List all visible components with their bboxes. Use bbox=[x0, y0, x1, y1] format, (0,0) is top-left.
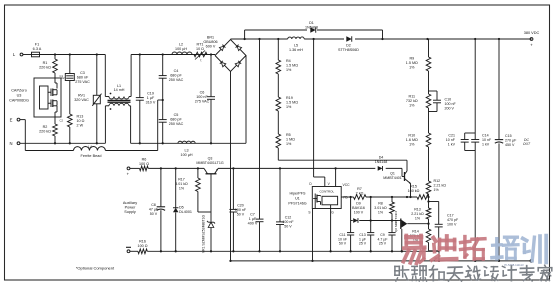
svg-text:C4: C4 bbox=[174, 69, 179, 73]
capacitor C8 47 uF 50 V bbox=[149, 168, 165, 251]
svg-text:160 kΩ: 160 kΩ bbox=[408, 189, 420, 193]
svg-text:D9: D9 bbox=[356, 202, 361, 206]
terminal output minus bbox=[530, 260, 533, 263]
svg-text:10 nF: 10 nF bbox=[446, 138, 456, 142]
svg-text:400 V: 400 V bbox=[248, 221, 258, 225]
svg-text:270 µF: 270 µF bbox=[505, 138, 517, 142]
diode D2 STTH8S06D bbox=[338, 36, 359, 52]
terminal L bbox=[13, 52, 23, 57]
svg-text:250 VAC: 250 VAC bbox=[169, 122, 184, 126]
svg-text:CAP006DG: CAP006DG bbox=[9, 99, 29, 103]
svg-text:R11: R11 bbox=[409, 95, 416, 99]
svg-text:R12: R12 bbox=[434, 179, 441, 183]
svg-text:100 µH: 100 µH bbox=[175, 47, 187, 51]
svg-text:Supply: Supply bbox=[124, 210, 136, 214]
svg-text:1.6 MΩ: 1.6 MΩ bbox=[406, 138, 418, 142]
terminal auxiliary minus bbox=[126, 247, 131, 252]
svg-text:Auxiliary: Auxiliary bbox=[123, 201, 137, 205]
resistor R10 1.6 MOhm bbox=[406, 108, 431, 181]
svg-text:D5: D5 bbox=[179, 206, 184, 210]
svg-text:C3: C3 bbox=[80, 71, 85, 75]
svg-text:50 V: 50 V bbox=[284, 224, 292, 228]
wire ferrite bead to Y capacitor midpoint bbox=[105, 99, 163, 151]
capacitor C12 100 nF 50 V bbox=[276, 168, 294, 251]
svg-text:PFS7146G: PFS7146G bbox=[288, 202, 306, 206]
svg-text:VR1 SZMMSZ5248BT1G: VR1 SZMMSZ5248BT1G bbox=[202, 215, 206, 254]
svg-text:1%: 1% bbox=[409, 65, 415, 69]
svg-text:C5: C5 bbox=[174, 113, 179, 117]
svg-text:R14: R14 bbox=[412, 230, 419, 234]
svg-text:2.21 kΩ: 2.21 kΩ bbox=[411, 212, 424, 216]
svg-text:X2: X2 bbox=[61, 76, 65, 80]
resistor R11 732 kOhm bbox=[406, 71, 431, 108]
svg-text:CAPZero: CAPZero bbox=[11, 89, 27, 93]
svg-text:200 V: 200 V bbox=[445, 106, 455, 110]
svg-text:100 V: 100 V bbox=[447, 222, 457, 226]
svg-text:R13: R13 bbox=[414, 208, 421, 212]
wire L line bbox=[40, 53, 216, 55]
svg-text:U1: U1 bbox=[295, 197, 300, 201]
CAPZero U3 CAP006DG bbox=[9, 74, 63, 123]
svg-text:t: t bbox=[201, 59, 202, 63]
svg-text:BR1: BR1 bbox=[207, 36, 214, 40]
capacitor C10 100 nF 200 V bbox=[429, 91, 457, 112]
svg-text:10 Ω: 10 Ω bbox=[77, 119, 85, 123]
terminal output plus 380 VDC bbox=[524, 31, 540, 48]
svg-text:R1: R1 bbox=[43, 61, 48, 65]
capacitor C17 470 pF 100 V bbox=[429, 202, 459, 252]
svg-text:R6: R6 bbox=[142, 158, 147, 162]
resistor R19 1.5 MOhm bbox=[276, 74, 298, 111]
capacitor C14 10 nF 1 kV bbox=[471, 39, 492, 262]
op-amp U1 HiperPFS PFS7146G controller bbox=[288, 182, 350, 215]
svg-text:680 pF: 680 pF bbox=[170, 117, 182, 121]
svg-text:STTH8S06D: STTH8S06D bbox=[338, 48, 359, 52]
resistor R6 100 Ohm bbox=[130, 158, 149, 171]
svg-text:14 mH: 14 mH bbox=[114, 88, 125, 92]
svg-text:1%: 1% bbox=[378, 210, 384, 214]
wire power return rail bbox=[231, 260, 532, 262]
svg-text:3.01 kΩ: 3.01 kΩ bbox=[175, 182, 188, 186]
svg-text:C20: C20 bbox=[237, 204, 244, 208]
diode D1 1N5408 bypass bbox=[245, 21, 383, 39]
svg-text:600 V: 600 V bbox=[206, 44, 216, 48]
svg-text:680 nF: 680 nF bbox=[77, 75, 89, 79]
wire signal ground rail bbox=[130, 250, 439, 252]
svg-text:DL4001: DL4001 bbox=[179, 210, 192, 214]
svg-text:1 µF: 1 µF bbox=[249, 217, 257, 221]
svg-text:L2: L2 bbox=[179, 43, 183, 47]
svg-text:VCC: VCC bbox=[343, 183, 351, 187]
svg-text:1N5408: 1N5408 bbox=[305, 25, 318, 29]
svg-text:25 V: 25 V bbox=[359, 242, 367, 246]
resistor R2 220 kOhm bbox=[39, 117, 57, 143]
svg-text:PI-5498-111113: PI-5498-111113 bbox=[504, 263, 524, 267]
svg-text:R13: R13 bbox=[77, 115, 84, 119]
svg-text:C15: C15 bbox=[505, 134, 512, 138]
svg-text:1%: 1% bbox=[409, 103, 415, 107]
svg-text:1N4148: 1N4148 bbox=[375, 160, 388, 164]
svg-text:1%: 1% bbox=[409, 142, 415, 146]
diode D4 1N4148 bbox=[375, 156, 388, 171]
svg-text:1%: 1% bbox=[179, 186, 185, 190]
fuse F1 6.3 A bbox=[23, 43, 42, 57]
transistor Q1 MMBT4401 bbox=[383, 168, 411, 197]
svg-text:N: N bbox=[9, 141, 12, 146]
capacitor C6 100 nF 275 VAC bbox=[195, 55, 215, 144]
svg-text:C12: C12 bbox=[285, 216, 292, 220]
svg-text:10 nF: 10 nF bbox=[482, 138, 492, 142]
watermark text line 2 bbox=[395, 265, 552, 281]
svg-text:220 kΩ: 220 kΩ bbox=[39, 65, 51, 69]
svg-text:L1: L1 bbox=[117, 84, 121, 88]
svg-text:1.5 MΩ: 1.5 MΩ bbox=[286, 63, 298, 67]
svg-text:CONTROL: CONTROL bbox=[319, 190, 334, 194]
svg-text:1 µF: 1 µF bbox=[147, 96, 155, 100]
svg-text:R9: R9 bbox=[409, 57, 414, 61]
zener VR1 SZMMSZ5248BT1G bbox=[202, 212, 216, 253]
svg-text:Q3: Q3 bbox=[208, 157, 213, 161]
svg-text:R5: R5 bbox=[286, 133, 291, 137]
svg-text:C6: C6 bbox=[200, 91, 205, 95]
capacitor C15 270 uF 450 V bulk bbox=[495, 39, 531, 262]
wire voltage sense line bbox=[278, 160, 407, 171]
svg-text:R10: R10 bbox=[408, 134, 415, 138]
svg-text:100 Ω: 100 Ω bbox=[139, 162, 149, 166]
bridge rectifier BR1 GBU806 600 V bbox=[203, 36, 246, 72]
svg-text:HiperPFS: HiperPFS bbox=[290, 192, 307, 196]
resistor R17 3.01 kOhm bbox=[175, 168, 211, 212]
wire VCC pin bbox=[335, 168, 337, 186]
svg-text:1%: 1% bbox=[286, 105, 292, 109]
wire DC bus rail bbox=[231, 38, 532, 40]
capacitor C19 1 uF 310 V bbox=[136, 55, 156, 144]
svg-text:L5: L5 bbox=[294, 44, 298, 48]
resistor R14 576 kOhm bbox=[410, 229, 440, 262]
svg-text:100 nF: 100 nF bbox=[196, 95, 208, 99]
svg-text:L4: L4 bbox=[88, 145, 92, 149]
wire VCC line bbox=[148, 167, 402, 169]
resistor R1 220 kOhm bbox=[39, 55, 57, 79]
resistor R5 1 MOhm bbox=[276, 111, 295, 160]
svg-text:50 V: 50 V bbox=[150, 212, 158, 216]
svg-text:C21: C21 bbox=[448, 134, 455, 138]
capacitor C7 1 uF 400 V bbox=[248, 39, 264, 251]
wire feedback line bbox=[341, 196, 428, 198]
capacitor C13 1 uF 25 V bbox=[359, 197, 374, 251]
svg-text:1%: 1% bbox=[434, 188, 440, 192]
svg-text:L3: L3 bbox=[184, 149, 188, 153]
svg-text:RV1: RV1 bbox=[78, 94, 85, 98]
svg-text:50 V: 50 V bbox=[237, 212, 245, 216]
svg-text:1 kV: 1 kV bbox=[482, 142, 490, 146]
terminal E bbox=[10, 117, 20, 122]
svg-text:380 VDC: 380 VDC bbox=[524, 31, 540, 35]
resistor R13a 2.21 kOhm feedback bbox=[411, 197, 431, 229]
inductor L2 100 uH bbox=[172, 43, 192, 55]
svg-text:C10: C10 bbox=[445, 98, 452, 102]
svg-text:R19: R19 bbox=[286, 96, 293, 100]
common mode choke L1 14 mH bbox=[105, 55, 131, 144]
capacitor C20 100 nF 50 V bbox=[229, 168, 246, 251]
svg-text:680 pF: 680 pF bbox=[170, 73, 182, 77]
resistor R15 160 kOhm bbox=[408, 185, 429, 200]
svg-text:1%: 1% bbox=[286, 68, 292, 72]
wire N to bridge AC input bbox=[245, 56, 247, 144]
capacitor C3 680 nF 275 VAC bbox=[61, 55, 90, 115]
resistor R9 1.5 MOhm bbox=[406, 39, 431, 71]
wire ground pin to signal ground bbox=[329, 209, 331, 253]
svg-text:OUT: OUT bbox=[523, 142, 531, 146]
svg-text:1%: 1% bbox=[286, 142, 292, 146]
wire drain node bbox=[314, 39, 325, 187]
resistor R8 3.01 kOhm bbox=[374, 197, 394, 221]
svg-text:C14: C14 bbox=[482, 134, 489, 138]
svg-text:E: E bbox=[10, 117, 13, 122]
svg-text:Q1: Q1 bbox=[390, 172, 395, 176]
svg-text:1 kV: 1 kV bbox=[448, 142, 456, 146]
svg-text:2.21 kΩ: 2.21 kΩ bbox=[434, 183, 447, 187]
diode D9 BAV116 100 V bbox=[351, 202, 398, 223]
svg-text:1 MΩ: 1 MΩ bbox=[286, 137, 295, 141]
svg-text:R4: R4 bbox=[286, 59, 291, 63]
svg-text:R2: R2 bbox=[43, 125, 48, 129]
svg-text:MMBT4401: MMBT4401 bbox=[383, 176, 402, 180]
svg-text:275 VAC: 275 VAC bbox=[75, 80, 90, 84]
svg-text:100 nF: 100 nF bbox=[282, 220, 294, 224]
svg-text:2 kΩ: 2 kΩ bbox=[356, 191, 364, 195]
svg-text:R7: R7 bbox=[357, 187, 362, 191]
terminal auxiliary plus bbox=[123, 167, 137, 214]
resistor R7 2 kOhm bbox=[354, 187, 367, 199]
svg-text:R15: R15 bbox=[410, 185, 417, 189]
thermistor RT1 10 Ohm bbox=[194, 43, 207, 63]
svg-text:320 VAC: 320 VAC bbox=[74, 98, 89, 102]
svg-text:Ferrite Bead: Ferrite Bead bbox=[81, 154, 102, 158]
wire source pin to return rail bbox=[311, 209, 313, 263]
svg-text:47 µF: 47 µF bbox=[149, 207, 159, 211]
svg-text:220 kΩ: 220 kΩ bbox=[39, 129, 51, 133]
capacitor C11 10 nF 50 V bbox=[338, 197, 354, 251]
svg-text:100 nF: 100 nF bbox=[235, 208, 247, 212]
svg-text:C2: C2 bbox=[60, 119, 64, 123]
svg-text:450 V: 450 V bbox=[505, 143, 515, 147]
capacitor C9 4.7 uF 25 V bbox=[378, 221, 396, 252]
terminal N bbox=[9, 141, 19, 146]
svg-text:1%: 1% bbox=[415, 216, 421, 220]
transistor Q2 MMBT4403 bbox=[394, 211, 430, 253]
svg-text:R8: R8 bbox=[378, 202, 383, 206]
svg-text:100 µH: 100 µH bbox=[181, 153, 193, 157]
inductor L3 100 uH bbox=[178, 141, 195, 157]
svg-text:470 pF: 470 pF bbox=[447, 218, 459, 222]
svg-text:250 VAC: 250 VAC bbox=[169, 78, 184, 82]
svg-text:732 kΩ: 732 kΩ bbox=[406, 99, 418, 103]
resistor R16 100 Ohm bbox=[138, 240, 148, 254]
svg-text:100 Ω: 100 Ω bbox=[138, 244, 148, 248]
inductor L5 1.36 mH PFC choke bbox=[288, 37, 305, 52]
wire N line bbox=[20, 142, 246, 144]
svg-text:1.5 MΩ: 1.5 MΩ bbox=[286, 100, 298, 104]
svg-text:100 V: 100 V bbox=[354, 210, 364, 214]
svg-text:1.5 MΩ: 1.5 MΩ bbox=[406, 61, 418, 65]
svg-text:310 V: 310 V bbox=[146, 100, 156, 104]
varistor RV1 320 VAC bbox=[74, 55, 101, 144]
watermark text line 1 bbox=[403, 236, 546, 264]
svg-text:*Optional Component: *Optional Component bbox=[76, 266, 115, 271]
svg-text:6.3 A: 6.3 A bbox=[33, 47, 42, 51]
svg-text:C7: C7 bbox=[250, 213, 255, 217]
resistor R12 2.21 kOhm bbox=[426, 179, 446, 198]
capacitor C5 680 pF 250 VAC bbox=[159, 113, 184, 143]
resistor R13 10 Ohm 2 W bbox=[68, 114, 85, 143]
svg-text:2 W: 2 W bbox=[77, 123, 84, 127]
svg-text:1.36 mH: 1.36 mH bbox=[289, 48, 303, 52]
svg-text:BAV116: BAV116 bbox=[352, 206, 365, 210]
svg-text:S: S bbox=[308, 211, 310, 215]
svg-text:GBU806: GBU806 bbox=[203, 40, 217, 44]
svg-text:100 nF: 100 nF bbox=[445, 102, 457, 106]
svg-text:50 V: 50 V bbox=[339, 242, 347, 246]
svg-text:Q2 MMBT4403: Q2 MMBT4403 bbox=[394, 211, 398, 232]
svg-text:25 V: 25 V bbox=[379, 242, 387, 246]
svg-text:C8: C8 bbox=[151, 203, 156, 207]
wire bridge minus to return rail bbox=[229, 72, 231, 263]
capacitor C4 680 pF 250 VAC bbox=[159, 55, 184, 120]
svg-text:MMBT4401LT1G: MMBT4401LT1G bbox=[196, 161, 223, 165]
ferrite bead L4 bbox=[74, 145, 106, 158]
svg-text:C17: C17 bbox=[447, 214, 454, 218]
svg-text:D4: D4 bbox=[379, 156, 384, 160]
diode D5 DL4001 bbox=[173, 168, 192, 251]
svg-text:D2: D2 bbox=[346, 44, 351, 48]
svg-text:Power: Power bbox=[125, 206, 136, 210]
svg-text:3.01 kΩ: 3.01 kΩ bbox=[374, 206, 387, 210]
svg-text:10 Ω: 10 Ω bbox=[196, 47, 204, 51]
transistor Q3 MMBT4401LT1G bbox=[196, 157, 223, 213]
svg-text:RT1: RT1 bbox=[197, 43, 204, 47]
svg-text:R17: R17 bbox=[178, 178, 185, 182]
resistor R4 1.5 MOhm bbox=[276, 39, 298, 74]
svg-text:F1: F1 bbox=[35, 43, 39, 47]
svg-text:R16: R16 bbox=[139, 240, 146, 244]
capacitor C21 10 nF 1 kV bbox=[446, 133, 475, 151]
wire E to ferrite bead bbox=[20, 120, 74, 151]
svg-text:C19: C19 bbox=[147, 92, 154, 96]
svg-text:275 VAC: 275 VAC bbox=[195, 99, 210, 103]
svg-text:U3: U3 bbox=[17, 94, 22, 98]
